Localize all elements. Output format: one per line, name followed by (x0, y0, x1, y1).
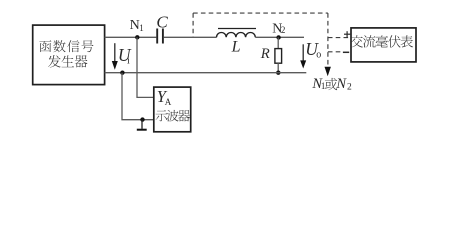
svg-text:2: 2 (281, 25, 286, 35)
svg-text:1: 1 (321, 81, 326, 91)
node below R dot (276, 71, 280, 75)
svg-text:C: C (156, 12, 168, 31)
svg-text:U: U (118, 45, 132, 65)
svg-text:2: 2 (347, 83, 352, 93)
arrow Ui (114, 43, 116, 61)
inductor core line (218, 28, 256, 30)
resistor R stub top (277, 37, 279, 48)
dashed branch to voltmeter plus terminal (328, 37, 350, 39)
svg-text:R: R (260, 46, 270, 62)
label 函数信号 (39, 40, 51, 52)
inductor L coil (217, 32, 256, 37)
ground symbol (141, 120, 143, 129)
svg-text:L: L (231, 39, 241, 56)
svg-text:o: o (316, 49, 321, 60)
ground junction dot (140, 117, 144, 121)
left box: function signal generator (33, 25, 105, 85)
wire top: box to capacitor (105, 36, 157, 38)
dashed box top edge (193, 12, 328, 14)
label 示波器 (156, 110, 168, 121)
junction dot on bottom wire (120, 71, 124, 75)
wire capacitor to inductor (164, 36, 217, 38)
dashed box left edge (192, 13, 194, 37)
label 发生器 (48, 55, 61, 68)
arrow Uo (302, 44, 304, 61)
node N2 dot (276, 35, 280, 39)
minus terminal (343, 51, 349, 53)
node N1 dot (135, 35, 139, 39)
label 交流毫伏表 (351, 35, 363, 47)
wire inductor to N2 and wire end (255, 36, 304, 38)
dashed box right edge (327, 13, 329, 66)
resistor R body (275, 49, 282, 64)
wire N1 down to oscilloscope YA input (137, 37, 154, 97)
wire bottom return (105, 72, 307, 74)
svg-text:N: N (335, 76, 347, 92)
plus terminal (344, 33, 350, 35)
svg-text:1: 1 (139, 23, 144, 33)
dashed arrow head (325, 67, 331, 77)
dashed branch to voltmeter minus terminal (328, 51, 342, 53)
svg-text:A: A (165, 97, 172, 107)
capacitor C plates (156, 29, 158, 44)
AC millivoltmeter box (351, 28, 416, 62)
svg-text:i: i (127, 56, 130, 67)
resistor R stub bottom (277, 63, 279, 72)
wire bottom junction down to oscilloscope ground lead (122, 73, 154, 120)
oscilloscope box (154, 87, 191, 132)
